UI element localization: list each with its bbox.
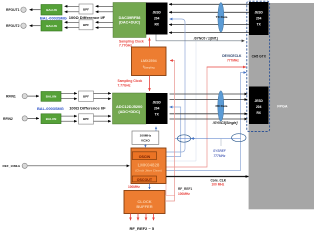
svg-text:204: 204 xyxy=(256,17,262,21)
FPGA JESD204 TX block xyxy=(249,2,269,35)
svg-text:SYSREF: SYSREF xyxy=(213,149,227,153)
filter BPF2 xyxy=(79,20,93,30)
wire REF to LMK xyxy=(28,165,130,167)
DAC39RF58 block xyxy=(113,3,146,38)
LMK aux output wire xyxy=(166,160,196,162)
svg-text:RF_REF1: RF_REF1 xyxy=(178,187,192,191)
SYSREF wire to FPGA xyxy=(166,73,246,171)
svg-text:BPF: BPF xyxy=(83,7,89,11)
wire bpf3 to ADC pair xyxy=(94,92,112,94)
DEVICECLK wire LMK to FPGA xyxy=(166,67,207,167)
svg-text:777MHz: 777MHz xyxy=(214,154,226,158)
clock buffer xyxy=(124,191,165,214)
svg-text:DAC39RF58: DAC39RF58 xyxy=(119,16,141,20)
TX data lane 4 xyxy=(169,32,249,34)
svg-text:100MHz: 100MHz xyxy=(128,185,140,189)
svg-text:RX Data: RX Data xyxy=(216,104,228,108)
svg-text:RFOUT1: RFOUT1 xyxy=(6,8,20,12)
wire RFIN2 to balun4 xyxy=(28,117,39,119)
svg-text:BALUN: BALUN xyxy=(46,117,57,121)
SYSREF wire to ADC xyxy=(166,107,181,157)
svg-text:100MHz: 100MHz xyxy=(178,192,190,196)
svg-text:JESD: JESD xyxy=(255,11,264,15)
svg-text:RF_REF2 ~ 5: RF_REF2 ~ 5 xyxy=(130,226,155,231)
filter BPF3 xyxy=(79,91,94,101)
svg-text:/SYNC0 / 1(Diff.): /SYNC0 / 1(Diff.) xyxy=(193,37,218,41)
SYSREF group line with bus ellipses xyxy=(175,134,246,146)
filter BPF1 xyxy=(79,4,93,14)
svg-text:100Ω Difference I/F: 100Ω Difference I/F xyxy=(69,15,106,20)
RFOUT1 connector xyxy=(21,7,26,12)
filter BPF4 xyxy=(79,114,94,124)
FPGA JESD204 RX block xyxy=(249,87,269,125)
wire balun1 to RFOUT1 xyxy=(30,9,41,11)
RX data lane 2 xyxy=(170,99,248,101)
svg-text:LMK04828: LMK04828 xyxy=(138,163,160,168)
wire VCXO to ADC clock stub xyxy=(155,127,157,131)
/SYNC0/1 wire DAC to FPGA xyxy=(156,35,245,41)
wire RFIN1 to balun3 xyxy=(28,95,39,97)
RF_REF1 leader line xyxy=(166,184,175,196)
svg-text:204: 204 xyxy=(154,107,160,111)
svg-text:JESD: JESD xyxy=(153,101,162,105)
svg-text:(Clock Jitter Clean): (Clock Jitter Clean) xyxy=(135,168,161,172)
svg-text:CH5 GTX: CH5 GTX xyxy=(252,55,267,59)
wire balun3 to bpf3 pair xyxy=(61,92,77,94)
svg-text:100 MHz: 100 MHz xyxy=(212,183,225,187)
wire balun2 to RFOUT2 xyxy=(30,25,41,27)
svg-text:BPF: BPF xyxy=(83,94,89,98)
svg-text:JESD: JESD xyxy=(153,11,162,15)
LMK04828 clock jitter cleaner xyxy=(131,148,166,184)
TX data bus ellipse xyxy=(216,2,228,32)
RX data lane 1 xyxy=(170,93,248,95)
ADC JESD204 TX block xyxy=(146,93,168,124)
svg-text:7.77GHz: 7.77GHz xyxy=(119,44,132,48)
RX data lane 4 xyxy=(170,118,248,120)
svg-text:BALUN: BALUN xyxy=(46,95,57,99)
TX data lane 2 xyxy=(169,11,249,13)
svg-text:RFIN1: RFIN1 xyxy=(6,95,16,99)
svg-text:BPF: BPF xyxy=(83,117,89,121)
LMX2594 synthesizer xyxy=(132,47,167,76)
balun B4 xyxy=(41,114,61,124)
wire bpf1 to balun1 pair xyxy=(65,5,80,7)
balun B2 xyxy=(41,21,62,32)
RFIN2 connector xyxy=(22,116,27,121)
wire DAC to bpf2 pair xyxy=(96,21,114,23)
sampling clock arrow to DAC xyxy=(149,38,151,47)
wire DAC to bpf1 pair xyxy=(96,5,114,7)
wire LMK OSCOUT to clock buffer xyxy=(149,184,151,190)
RFIN1 connector xyxy=(22,94,27,99)
svg-text:100MHz: 100MHz xyxy=(140,134,152,138)
svg-text:TX Data: TX Data xyxy=(216,15,228,19)
svg-text:FPGA: FPGA xyxy=(277,105,288,109)
wire balun4 to bpf4 pair xyxy=(61,115,77,117)
SYSREF wire to DAC xyxy=(166,19,185,152)
svg-text:BAL-0003SMG: BAL-0003SMG xyxy=(40,15,67,20)
svg-text:(DAC+DUC): (DAC+DUC) xyxy=(119,21,141,25)
svg-text:BALUN: BALUN xyxy=(46,8,57,12)
wire bpf2 to balun2 pair xyxy=(65,21,80,23)
svg-text:BPF: BPF xyxy=(83,23,89,27)
VCXO oscillator xyxy=(132,131,159,144)
dashed border around FPGA JESD/GTX column xyxy=(247,1,270,131)
RFOUT2 connector xyxy=(21,23,26,28)
svg-text:7.77GHz: 7.77GHz xyxy=(118,84,131,88)
RX data lane 3 xyxy=(170,113,248,115)
svg-text:BAL-0003SMG: BAL-0003SMG xyxy=(37,106,64,111)
svg-text:Sampling Clock: Sampling Clock xyxy=(118,79,143,83)
svg-text:RFIN2: RFIN2 xyxy=(3,117,13,121)
svg-text:RFOUT2: RFOUT2 xyxy=(6,24,20,28)
svg-text:204: 204 xyxy=(154,17,160,21)
svg-text:BALUN: BALUN xyxy=(46,24,57,28)
wire bpf4 to ADC pair xyxy=(94,115,112,117)
TX data lane 3 xyxy=(169,24,249,26)
svg-text:JESD: JESD xyxy=(255,99,264,103)
DAC JESD204 RX block xyxy=(146,3,168,35)
svg-text:204: 204 xyxy=(256,105,262,109)
balun B3 xyxy=(41,92,61,102)
RF_REF2-5 arrows xyxy=(131,214,154,221)
svg-text:777MHz: 777MHz xyxy=(227,59,239,63)
REF_10MHz connector xyxy=(22,163,27,168)
ADC12DJ5200 block xyxy=(113,93,147,124)
svg-text:OSCOUT: OSCOUT xyxy=(137,178,153,182)
svg-text:REF_10MHz: REF_10MHz xyxy=(3,164,21,168)
TX data lane 1 xyxy=(169,3,249,5)
RX data bus ellipse xyxy=(216,91,228,121)
svg-text:100Ω Difference I/F: 100Ω Difference I/F xyxy=(69,106,106,111)
svg-text:DEVICECLK: DEVICECLK xyxy=(222,54,242,58)
RF_REF1 wire buffer to LMX xyxy=(165,61,175,202)
wire VCXO to LMK OSCIN xyxy=(144,145,146,148)
svg-text:VCXO: VCXO xyxy=(141,139,150,143)
svg-text:OSCIN: OSCIN xyxy=(139,155,151,159)
svg-text:/SYNC3[Single]: /SYNC3[Single] xyxy=(212,121,239,125)
FPGA xyxy=(249,3,314,209)
svg-text:(ADC+DDC): (ADC+DDC) xyxy=(118,109,140,114)
svg-text:LMX2594: LMX2594 xyxy=(141,59,158,63)
sampling clock arrow to ADC xyxy=(149,76,151,92)
svg-text:BUFFER: BUFFER xyxy=(136,204,152,209)
Core_CLK wire LMK to FPGA xyxy=(166,176,249,178)
balun B1 xyxy=(41,5,62,16)
faint vertical junction wire xyxy=(195,41,197,161)
